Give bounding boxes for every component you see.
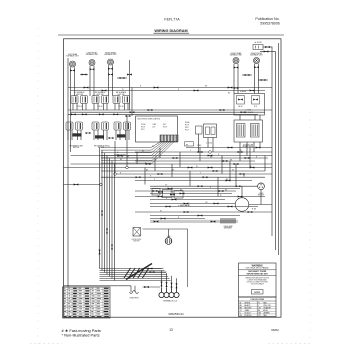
connector on J8 wire: [265, 46, 270, 48]
lamp E1 hatched element: [221, 218, 235, 224]
gauge table col rule: [83, 287, 85, 318]
label row2 right: [114, 154, 126, 159]
wire jog x160: [159, 148, 161, 159]
wire switch row2 drop x116: [115, 130, 117, 140]
wire switch row1 drop x124.5: [124, 104, 126, 111]
connector mid y164.0 x236: [234, 163, 239, 165]
wire bundle v2: [101, 150, 103, 270]
connector bottom b: [150, 271, 155, 273]
svg-text:SURFACE UNIT: SURFACE UNIT: [66, 55, 78, 58]
wire K2 drop 1: [239, 142, 241, 161]
connector mid y191.0 x221: [219, 190, 224, 192]
wire switch row2 drop x125.5: [125, 130, 127, 140]
wire mid field y164.0: [71, 163, 273, 165]
connector mid bus 1b: [220, 109, 225, 111]
switch row2 dark contact bar 1: [73, 133, 82, 136]
label LF surface switch: [75, 91, 85, 96]
connector mid y203.5 x216: [214, 203, 219, 205]
relay K1 cluster right of EOC: [185, 122, 190, 132]
wire top-mid vertical 2: [131, 88, 133, 117]
warning divider 2: [239, 275, 277, 277]
junction node at 127,167.5: [126, 166, 129, 169]
wire switch row2 drop x72: [71, 130, 73, 140]
gauge table col rule: [102, 287, 104, 318]
wire right rear unit lead 2: [237, 64, 239, 94]
gauge table row rule: [63, 296, 111, 298]
wire switch row2 drop x103.5: [103, 130, 105, 140]
wire bundle v3: [104, 153, 106, 273]
connector upper bus 1b: [154, 87, 159, 89]
wire stub C: [117, 77, 127, 79]
label oven lamp: [223, 225, 233, 230]
svg-text:SWITCH: SWITCH: [73, 147, 80, 149]
connector stub E: [261, 79, 266, 81]
surface unit left front: [89, 60, 95, 66]
label left rear surface unit: [66, 53, 78, 58]
U1 connector pin strip: [161, 135, 177, 142]
svg-text:MOTOR: MOTOR: [258, 194, 265, 196]
connector mid y206.5 x230: [228, 206, 233, 208]
svg-text:P4: P4: [152, 146, 154, 148]
connector mid y155.5 x120: [118, 155, 123, 157]
svg-text:WARNING: WARNING: [252, 264, 263, 267]
connector mid y218.5 x163: [161, 218, 166, 220]
color table row rule: [239, 303, 277, 305]
connector upper bus 1a: [84, 87, 89, 89]
connector right mid extra: [208, 167, 213, 169]
gauge table row rule: [63, 312, 111, 314]
svg-text:NOTE: NOTE: [254, 292, 260, 294]
wire switch row1 drop x107: [106, 104, 108, 111]
surface unit left rear: [70, 61, 76, 67]
wire jog x236: [235, 164, 237, 186]
wire mid field y177.2: [101, 176, 265, 178]
connector mid bus 2b: [241, 111, 246, 113]
color row BR: [240, 307, 272, 310]
wire right bus 2: [275, 52, 277, 251]
motor M1 fan: [235, 198, 249, 212]
motor M2 convection: [258, 183, 265, 190]
wire loop drop 2: [166, 273, 168, 288]
connector mid y164.0 x148: [146, 163, 151, 165]
gauge table row rule: [63, 314, 111, 316]
wire latch switch top: [168, 229, 170, 238]
wire mid field y186.2: [150, 185, 258, 187]
wire K3-K2 link 2: [254, 115, 256, 120]
bottom-left trim mark: [30, 343, 62, 345]
latch switch S5 hatched circle: [165, 238, 172, 245]
wire bundle h3: [100, 272, 166, 274]
svg-text:R W: R W: [254, 106, 258, 108]
label convection motor: [258, 193, 265, 197]
connector mid y184.5 x76: [74, 184, 79, 186]
connector mid y199.5 x174: [172, 199, 177, 201]
switch row2 dark contact bar 3: [117, 134, 126, 137]
connector P1 box: [185, 142, 194, 146]
wire K3-K2 link 3: [259, 115, 261, 120]
connector stub C: [120, 77, 125, 79]
switch RR surface unit: [113, 96, 130, 104]
wire mid field y193.5: [150, 193, 232, 195]
wire mid field y171.0: [101, 170, 265, 172]
color table header rule: [239, 300, 277, 302]
wire jog x172: [171, 164, 173, 177]
connector mid bus 1a: [148, 109, 153, 111]
wire surface unit lead 5: [108, 65, 110, 96]
connector mid y215.5 x200: [198, 215, 203, 217]
switch RF surface unit: [92, 96, 109, 104]
connector mid y171.0 x215: [213, 170, 218, 172]
electronic oven control U1 box: [136, 116, 178, 142]
connector mid bus 3e: [126, 115, 131, 117]
wire switch row1 drop x73: [72, 104, 74, 111]
wire stub D: [242, 74, 252, 76]
svg-text:P11 Y: P11 Y: [185, 129, 189, 131]
wire switch row1 drop x86: [85, 104, 87, 111]
connector mid y206.5 x168: [166, 206, 171, 208]
color row PR: [240, 314, 268, 317]
svg-text:Publication No.: Publication No.: [255, 17, 279, 21]
svg-text:WIRING DIAGRAM: WIRING DIAGRAM: [154, 29, 187, 33]
svg-text:YELLOW LEADS: YELLOW LEADS: [251, 283, 265, 286]
relay K2 lower double box: [234, 120, 263, 142]
label RF surface switch: [95, 91, 105, 96]
connector K3 a: [238, 99, 243, 101]
wire bottom c: [143, 286, 161, 288]
top bus wire name specks: [122, 86, 231, 95]
connector mid y203.5 x186: [184, 203, 189, 205]
oven chassis outline box: [143, 229, 188, 287]
wire K2 drop 2: [246, 142, 248, 156]
connector mid y196.5 x160: [158, 196, 163, 198]
color row V: [240, 313, 271, 315]
color table mid divider: [256, 301, 258, 317]
svg-text:SURFACE UNIT: SURFACE UNIT: [86, 53, 98, 56]
gauge table col rule: [71, 287, 73, 318]
wire loop drop 4: [176, 278, 178, 288]
wire mid field y191.0: [135, 190, 236, 192]
wire switch row2 drop x129: [128, 130, 130, 140]
gauge table row rule: [63, 309, 111, 311]
wire mid field y167.5: [64, 167, 273, 169]
wire jog x265: [264, 156, 266, 172]
wire mid field y215.5: [150, 215, 240, 217]
connector below left front unit: [90, 68, 95, 70]
wire motor M1 top: [241, 186, 243, 198]
warning notice box: [239, 263, 277, 297]
svg-text:BK W: BK W: [239, 106, 243, 108]
label door lock motor: [132, 239, 143, 243]
connector mid y155.5 x210: [208, 155, 213, 157]
svg-text:P2: P2: [108, 146, 110, 148]
wire right front unit lead 1: [254, 64, 256, 94]
gauge table row rule: [63, 291, 111, 293]
wire surface unit lead 4: [93, 66, 95, 96]
svg-text:P7 W: P7 W: [185, 124, 189, 126]
switch row2 left pair: [66, 122, 83, 130]
wire switch row2 drop x77.5: [77, 130, 79, 140]
wire jog x218: [217, 177, 219, 196]
connector mid y212.0 x250: [248, 211, 253, 213]
warning text lines lower: [245, 277, 269, 285]
svg-text:OVEN VENT: OVEN VENT: [129, 298, 138, 300]
wire bundle v5: [109, 158, 111, 277]
connector mid y174.0 x160: [158, 173, 163, 175]
svg-text:MOTOR: MOTOR: [134, 241, 141, 243]
wire mid field y158.0: [101, 157, 268, 159]
connector row2 a: [86, 132, 91, 134]
wire jog x137: [136, 152, 138, 164]
connector lamp lead 2: [154, 221, 159, 223]
label relay K2: [243, 145, 254, 149]
wire upper bus 2: [71, 90, 266, 92]
wire bottom b: [143, 271, 167, 273]
wire jog x155: [154, 158, 156, 171]
wire right front unit lead 2: [258, 64, 260, 94]
wire right rear unit lead 1: [233, 64, 235, 94]
wire mid bus 1: [68, 109, 272, 111]
warning inner small box: [252, 290, 264, 295]
svg-text:OFF HI: OFF HI: [98, 106, 103, 108]
gauge table row rule: [63, 304, 111, 306]
wire bundle v1: [99, 148, 101, 269]
K3 interior labels: [239, 106, 258, 114]
wire jog x145: [144, 168, 146, 185]
wire bundle v6: [111, 161, 113, 279]
label right rear surface unit 2: [230, 52, 242, 57]
wire switch row2 drop x81: [80, 130, 82, 140]
extra wire name specks: [117, 150, 262, 194]
gauge table col rule: [90, 287, 92, 318]
color row W: [240, 302, 268, 304]
connector mid y147.5 x258: [256, 147, 261, 149]
connector J8 box: [253, 45, 263, 50]
wire mid field y206.5: [150, 206, 258, 208]
connector mid y152.0 x200: [198, 151, 203, 153]
connector mid y174.0 x242: [240, 173, 245, 175]
connector below left rear unit: [70, 70, 75, 72]
wire bottom left long: [64, 285, 132, 287]
wire jog x250: [249, 148, 251, 168]
label right front surface unit: [250, 53, 262, 57]
gauge table col rule: [77, 287, 79, 318]
wire switch row1 drop x94: [93, 104, 95, 111]
page left trim dotted line: [37, 28, 39, 345]
wire bundle h1: [100, 268, 164, 270]
label row2 mid: [94, 145, 108, 150]
title underline: [154, 32, 190, 34]
wire switch row2 drop x98: [97, 130, 99, 140]
gauge table col rule: [95, 287, 97, 318]
wire loop drop 3: [171, 276, 173, 288]
bottom-right trim mark: [268, 343, 312, 345]
wire mid field y174.0: [115, 173, 272, 175]
connector mid y147.5 x230: [228, 147, 233, 149]
wire mid field y218.5: [150, 218, 205, 220]
connector upper bus 2a: [102, 90, 107, 92]
wire conv motor down: [260, 190, 262, 205]
junction node at 210,152: [209, 151, 212, 154]
warning text lines upper: [247, 271, 269, 275]
wire mid field y180.5: [135, 180, 252, 182]
connector below right rear unit 2: [234, 67, 239, 69]
connector mid y167.5 x252: [250, 167, 255, 169]
wire mid field y188.5: [150, 188, 240, 190]
connector stub D: [245, 74, 250, 76]
connector mid bus 3d: [113, 113, 118, 115]
color table row rule: [239, 313, 277, 315]
connector mid y177.2 x205: [203, 176, 208, 178]
color table row rule: [239, 305, 277, 307]
svg-text:SURFACE UNIT: SURFACE UNIT: [230, 54, 242, 57]
connector mid y191.0 x155: [153, 190, 158, 192]
wire stub A: [80, 74, 88, 76]
wire K1 drop 1: [198, 134, 200, 152]
gauge table row rule: [63, 307, 111, 309]
wire top-mid vertical 1: [129, 60, 131, 110]
wire bundle h5: [100, 276, 169, 278]
connector lamp lead: [211, 221, 216, 223]
connector mid y186.2 x200: [198, 185, 203, 187]
wire switch row1 drop x115: [114, 104, 116, 111]
switch row2 dark contact bar 2: [95, 135, 104, 138]
wire mid field y212.0: [135, 211, 272, 213]
connector mid y177.2 x138: [136, 176, 141, 178]
wire junction feeder x115: [114, 141, 116, 174]
wire surface unit lead 6: [112, 65, 114, 96]
wire K1 drop 2: [207, 138, 209, 148]
wire J8 lower to right bus 2: [260, 51, 276, 53]
connector bundle v1: [99, 250, 101, 255]
wire jog x190: [189, 171, 191, 186]
wire J8 to right bus: [263, 46, 272, 48]
wire K2 drop 3: [253, 142, 255, 152]
wire bundle h6: [100, 278, 170, 280]
connector upper bus 1c: [228, 87, 233, 89]
svg-text:BLACK: BLACK: [245, 304, 252, 307]
diagonal wire labels at bundle bend: [124, 264, 152, 280]
wire left feeder 1: [67, 58, 69, 287]
connector bundle v4: [106, 229, 108, 234]
connector below right front unit: [254, 66, 259, 68]
connector row2 b: [109, 137, 114, 139]
gauge table col rule: [67, 287, 69, 318]
wire loop drop 1: [161, 271, 163, 289]
wire switch row1 drop x103.5: [103, 104, 105, 111]
connector stub B: [108, 74, 113, 76]
wire switch row2 drop x68: [67, 130, 69, 140]
connector mid y161.0 x225: [223, 160, 228, 162]
switch row2 right pair: [114, 122, 131, 130]
wire fan from U1 pins: [101, 142, 174, 164]
color code table: [239, 297, 277, 317]
label row2 left: [69, 145, 83, 150]
connector mid y193.5 x182: [180, 193, 185, 195]
svg-text:OFF HI: OFF HI: [77, 106, 82, 108]
connector top-mid vertical 1: [127, 74, 132, 76]
wire mid field y196.5: [135, 196, 265, 198]
gauge table row rule: [63, 294, 111, 296]
svg-text:★ M: ★ M: [252, 208, 256, 211]
connector mid y196.5 x240: [238, 196, 243, 198]
door lock motor box with X: [133, 228, 141, 237]
svg-text:PURPLE: PURPLE: [245, 315, 253, 317]
svg-text:BEFORE SERVICING UNIT: BEFORE SERVICING UNIT: [247, 273, 269, 275]
relay K3 upper box: [234, 94, 265, 116]
relay cluster boxes: [152, 189, 160, 196]
connector mid y212.0 x186: [184, 211, 189, 213]
connector upper bus 2c: [250, 90, 255, 92]
connector cluster a: [158, 191, 163, 193]
wire junction feeder x127: [126, 116, 128, 168]
connector stub D2: [234, 87, 239, 89]
wire bundle v7: [114, 163, 116, 280]
connector K3 b: [253, 99, 258, 101]
svg-text:306255C41: 306255C41: [168, 312, 184, 316]
connector mid y186.2 x238: [236, 185, 241, 187]
connector mid y188.5 x170: [168, 188, 173, 190]
wire mid field y161.0: [135, 160, 255, 162]
svg-text:P4 W: P4 W: [141, 127, 145, 129]
junction node at 115,174: [114, 173, 117, 176]
connector below right rear unit: [108, 68, 113, 70]
wire switch row1 drop x119: [118, 104, 120, 111]
connector mid y180.5 x228: [226, 180, 231, 182]
oven vent element squiggle: [130, 286, 139, 294]
terminal block loops: [159, 288, 179, 298]
wire surface unit lead 1: [70, 67, 72, 96]
wire mid field y203.5: [150, 203, 235, 205]
wire motor M1 right: [249, 204, 272, 206]
wire surface unit lead 3: [89, 66, 91, 96]
connector bundle v6: [111, 245, 113, 250]
wire jog x200: [199, 148, 201, 162]
wire mid field y155.5: [71, 155, 273, 157]
diagram border frame: [64, 39, 282, 317]
connector on J8 lower wire: [264, 51, 269, 53]
wire bundle v4: [106, 155, 108, 274]
svg-text:FEFL77A: FEFL77A: [164, 18, 180, 22]
label RR surface switch: [116, 91, 126, 96]
connector mid bus 3b: [82, 113, 87, 115]
gauge table row rule: [63, 299, 111, 301]
wire right bus 3: [278, 43, 280, 255]
wire mid field y199.5: [150, 199, 225, 201]
svg-text:ORANGE: ORANGE: [263, 307, 271, 310]
wire K2 drop 4: [259, 142, 261, 148]
connector mid y167.5 x190: [188, 167, 193, 169]
connector stub A: [82, 74, 87, 76]
connector cluster b: [170, 194, 175, 196]
wire mid field y184.5: [64, 184, 102, 186]
wire name labels field: [108, 146, 252, 219]
wire bundle h4: [100, 274, 168, 276]
wire mid bus 3: [68, 113, 258, 115]
gauge table row rule: [63, 289, 111, 291]
wire bottom a: [143, 268, 162, 270]
svg-text:OFF HI: OFF HI: [119, 106, 124, 108]
connector bottom a: [148, 268, 153, 270]
EOC interior pin labels: [141, 124, 168, 131]
wire switch row2 drop x120: [119, 130, 121, 140]
svg-text:SURFACE UNIT: SURFACE UNIT: [104, 53, 116, 56]
svg-text:ELECTRONIC OVEN CONTROL: ELECTRONIC OVEN CONTROL: [138, 118, 161, 120]
wire mid field y152.0: [135, 151, 272, 153]
wire left feeder 2: [70, 96, 72, 152]
wire switch row2 drop x107: [106, 130, 108, 140]
connector mid y158.0 x247: [245, 157, 250, 159]
warning divider 1: [239, 269, 277, 271]
